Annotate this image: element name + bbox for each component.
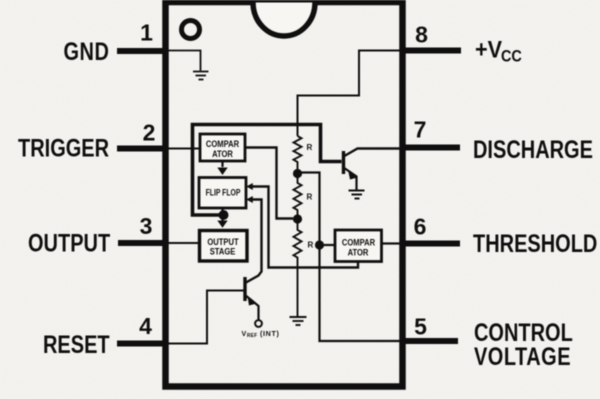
svg-text:2: 2 — [143, 120, 156, 146]
svg-text:GND: GND — [64, 38, 110, 66]
svg-text:DISCHARGE: DISCHARGE — [473, 136, 593, 164]
svg-text:R: R — [308, 241, 314, 250]
svg-text:+V: +V — [475, 35, 503, 62]
svg-text:STAGE: STAGE — [210, 246, 236, 257]
svg-text:1: 1 — [140, 20, 153, 46]
svg-text:R: R — [307, 193, 313, 202]
svg-text:7: 7 — [414, 117, 427, 143]
svg-text:CC: CC — [501, 47, 522, 65]
svg-text:R: R — [307, 143, 313, 152]
svg-text:RESET: RESET — [43, 331, 110, 359]
svg-text:5: 5 — [414, 314, 427, 340]
svg-text:6: 6 — [414, 214, 427, 240]
svg-text:TRIGGER: TRIGGER — [18, 134, 109, 162]
svg-text:FLIP FLOP: FLIP FLOP — [206, 187, 241, 197]
svg-text:4: 4 — [139, 313, 152, 339]
svg-text:3: 3 — [140, 213, 153, 239]
svg-text:OUTPUT: OUTPUT — [28, 229, 110, 257]
svg-text:THRESHOLD: THRESHOLD — [473, 230, 597, 258]
svg-text:8: 8 — [415, 22, 428, 48]
svg-text:VOLTAGE: VOLTAGE — [474, 343, 571, 371]
svg-text:ATOR: ATOR — [212, 148, 234, 159]
svg-text:ATOR: ATOR — [348, 247, 370, 258]
